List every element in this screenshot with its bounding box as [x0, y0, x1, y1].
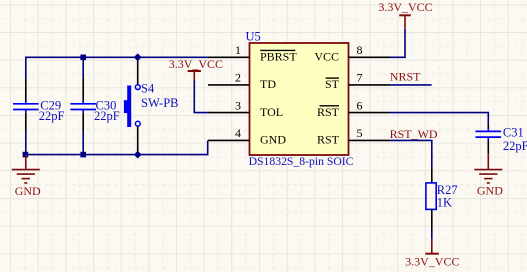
svg-text:GND: GND [260, 133, 286, 147]
pin 1 lead [208, 56, 250, 58]
wire from power to pin3 [194, 81, 209, 113]
svg-text:3: 3 [235, 98, 241, 112]
pin 6 lead [349, 112, 391, 114]
wire pin6 to C31 [390, 113, 488, 124]
wire NRST [390, 84, 432, 86]
junction bottom-left GND node [23, 152, 29, 158]
svg-text:RST: RST [317, 133, 340, 147]
svg-text:6: 6 [357, 98, 363, 112]
svg-text:22pF: 22pF [94, 109, 120, 123]
svg-text:22pF: 22pF [503, 139, 527, 153]
svg-text:RST: RST [317, 105, 340, 119]
switch S4 [124, 85, 140, 127]
svg-text:3.3V_VCC: 3.3V_VCC [405, 254, 459, 268]
capacitor C30 pin top [82, 78, 84, 101]
ground GND right [474, 154, 502, 183]
pin 5 lead [349, 139, 391, 141]
svg-text:8: 8 [357, 43, 363, 57]
svg-text:DS1832S_8-pin SOIC: DS1832S_8-pin SOIC [249, 155, 354, 168]
wire RST_WD [390, 140, 432, 168]
capacitor C29 pin top [25, 78, 27, 101]
capacitor C29 [13, 101, 39, 113]
svg-text:GND: GND [477, 184, 503, 198]
wire C30 top vertical [82, 57, 84, 78]
capacitor C30 pin bottom [82, 113, 84, 131]
capacitor C31 [476, 128, 502, 141]
junction C30 bottom [80, 152, 86, 158]
junction S4 top [134, 53, 142, 61]
svg-text:1: 1 [235, 43, 241, 57]
wire R27 to power [431, 230, 433, 239]
wire C29 top vertical [25, 57, 27, 79]
svg-text:TOL: TOL [260, 105, 283, 119]
svg-text:GND: GND [15, 184, 41, 198]
svg-text:22pF: 22pF [39, 109, 65, 123]
svg-text:U5: U5 [246, 29, 261, 43]
svg-text:4: 4 [235, 126, 241, 140]
power 3.3V_VCC top right [399, 15, 411, 28]
svg-text:7: 7 [357, 71, 363, 85]
junction C30 top [80, 55, 86, 61]
wire top bus C29/C30/S4 to pin1 [26, 56, 209, 58]
pin 4 lead [208, 139, 250, 141]
pin 2 lead [208, 84, 250, 86]
svg-text:1K: 1K [437, 195, 452, 209]
power 3.3V_VCC near pin1 [188, 71, 201, 81]
resistor R27 [426, 183, 436, 210]
svg-text:VCC: VCC [314, 50, 339, 64]
svg-text:PBRST: PBRST [260, 50, 297, 64]
ground GND left [12, 155, 40, 183]
switch S4 pin top [137, 57, 139, 84]
power 3.3V_VCC bottom [425, 239, 438, 254]
svg-text:ST: ST [325, 77, 340, 91]
switch S4 pin bottom [137, 126, 139, 154]
junction S4 bottom [134, 151, 142, 159]
svg-text:3.3V_VCC: 3.3V_VCC [169, 57, 223, 71]
svg-text:TD: TD [260, 77, 276, 91]
capacitor C31 pin top [487, 123, 489, 128]
resistor R27 pin top [431, 168, 433, 183]
svg-text:RST_WD: RST_WD [390, 127, 438, 141]
svg-text:SW-PB: SW-PB [141, 96, 179, 110]
wire C30 bottom vertical [82, 131, 84, 155]
pin 8 lead [349, 56, 391, 58]
svg-text:2: 2 [235, 71, 241, 85]
pin 3 lead [208, 112, 250, 114]
capacitor C30 [70, 101, 96, 113]
wire pin8 to power [390, 29, 405, 58]
svg-text:5: 5 [357, 126, 363, 140]
capacitor C31 pin bottom [487, 141, 489, 154]
svg-text:3.3V_VCC: 3.3V_VCC [378, 0, 432, 14]
resistor R27 pin bottom [431, 209, 433, 230]
svg-text:S4: S4 [141, 81, 155, 95]
wire pin4 vertical [207, 140, 209, 155]
capacitor C29 pin bottom [25, 113, 27, 131]
wire bottom bus [26, 154, 208, 156]
wire C29 bottom vertical [25, 131, 27, 155]
svg-text:C31: C31 [503, 125, 524, 139]
pin 7 lead [349, 84, 391, 86]
IC U1 body [250, 43, 349, 155]
svg-text:NRST: NRST [390, 70, 421, 84]
